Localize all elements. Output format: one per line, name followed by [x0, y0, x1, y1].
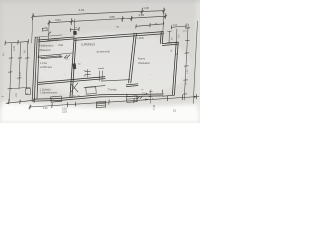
svg-text:Oberkabel: Oberkabel	[138, 62, 150, 65]
svg-text:2,42: 2,42	[139, 13, 145, 17]
svg-text:< 1,1400: < 1,1400	[135, 37, 145, 40]
svg-text:4,86: 4,86	[109, 15, 115, 19]
svg-text:1.0.3a: 1.0.3a	[40, 62, 47, 65]
svg-text:3,10: 3,10	[43, 108, 48, 110]
svg-text:1,30: 1,30	[152, 104, 156, 110]
svg-text:1.Bastelzim: 1.Bastelzim	[39, 49, 51, 52]
svg-text:4,47: 4,47	[12, 45, 16, 51]
svg-text:4,62: 4,62	[79, 8, 85, 12]
svg-text:Komm: Komm	[138, 57, 145, 60]
svg-text:Hobbyraum: Hobbyraum	[40, 44, 55, 48]
svg-text:1.Bastelzimmer: 1.Bastelzimmer	[40, 92, 57, 95]
svg-text:3,19: 3,19	[62, 110, 67, 113]
svg-text:LuCB.raum: LuCB.raum	[40, 66, 52, 69]
svg-text:u.Wohnzi: u.Wohnzi	[81, 43, 95, 47]
svg-text:dy.zimmerB: dy.zimmerB	[97, 50, 110, 53]
svg-text:Nab: Nab	[59, 44, 64, 47]
svg-text:1,10: 1,10	[173, 25, 178, 27]
svg-text:T.Vorbau: T.Vorbau	[108, 88, 118, 91]
svg-text:3,84: 3,84	[55, 18, 61, 22]
svg-text:1,38: 1,38	[144, 6, 150, 10]
